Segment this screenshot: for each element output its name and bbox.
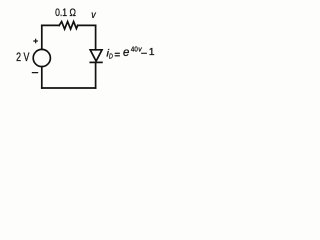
svg-text:e: e <box>123 47 129 59</box>
wire top-left lead <box>42 24 59 26</box>
diode D1 cathode bar <box>90 61 102 63</box>
wire top-right lead <box>78 24 96 26</box>
wire left vertical upper <box>41 25 43 49</box>
svg-text:2 V: 2 V <box>16 50 29 64</box>
voltage source V1 circle <box>33 49 50 66</box>
plus polarity mark <box>33 39 38 44</box>
svg-text:40: 40 <box>131 45 138 54</box>
wire right vertical upper (anode lead) <box>95 25 97 49</box>
svg-text:–: – <box>141 48 147 59</box>
svg-text:1: 1 <box>149 46 155 58</box>
minus polarity mark <box>32 72 38 73</box>
svg-text:D: D <box>109 52 113 61</box>
resistor R1 0.1 ohm <box>59 22 77 30</box>
wire right vertical lower (cathode lead) <box>95 62 97 88</box>
wire left vertical lower <box>41 67 43 88</box>
svg-text:0.1 Ω: 0.1 Ω <box>55 7 76 19</box>
svg-text:=: = <box>114 50 120 61</box>
wire bottom <box>42 87 96 89</box>
diode D1 triangle <box>90 50 102 61</box>
